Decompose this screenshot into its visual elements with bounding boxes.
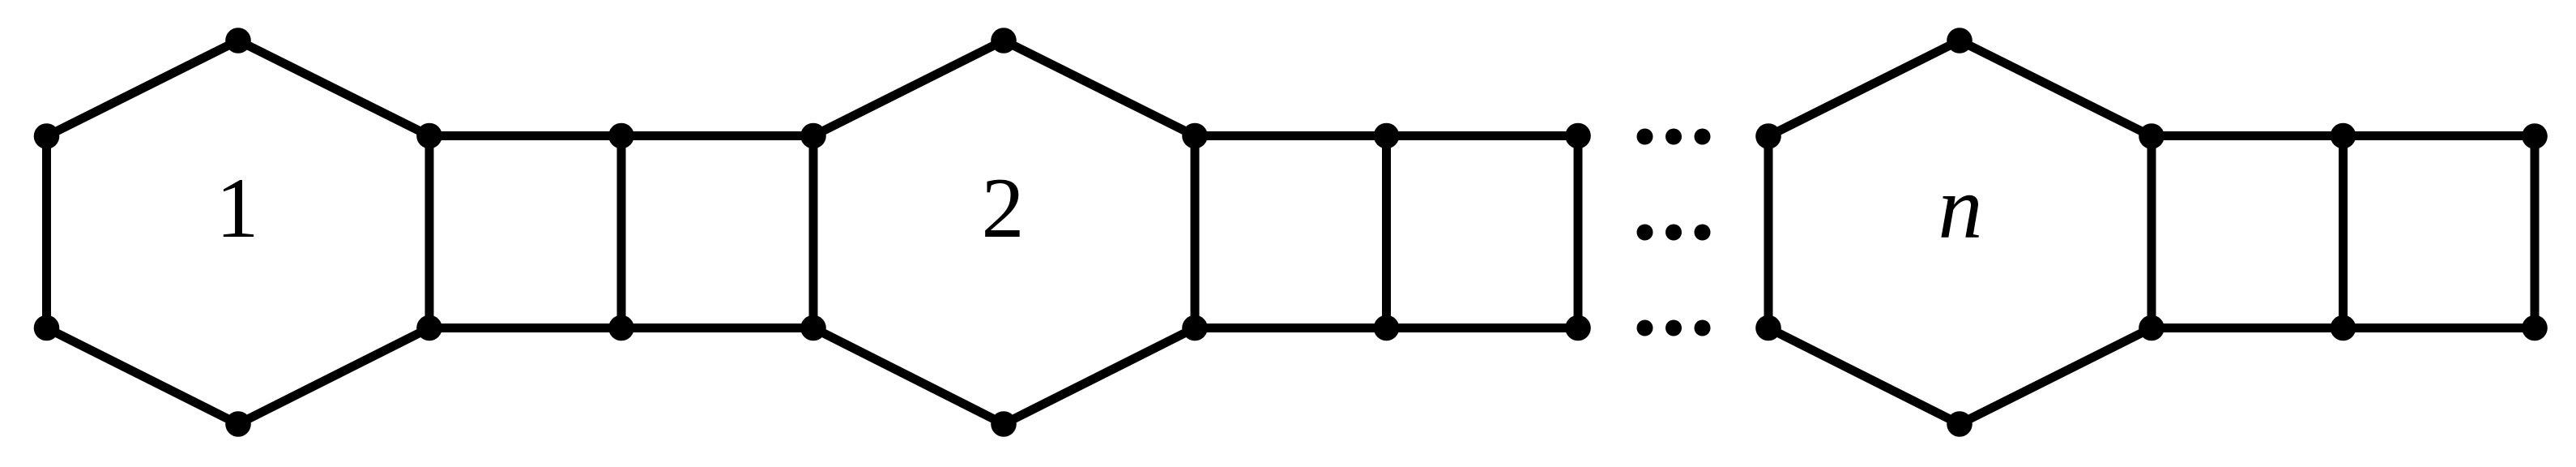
ellipsis dots bottom row <box>1637 320 1653 336</box>
hexagon 2 outline <box>813 41 1195 424</box>
ladder 2 middle rung <box>1382 136 1391 328</box>
vertex hexagon2 bottom <box>991 411 1017 437</box>
vertex ladder3 right-bottom <box>2522 315 2548 341</box>
vertex ladder3 mid-bottom <box>2331 315 2356 341</box>
vertex hexagon-n right-bottom <box>2139 315 2164 341</box>
vertex hexagon2 top <box>991 28 1017 54</box>
svg-text:n: n <box>1938 158 1983 257</box>
vertex ladder2 mid-top <box>1374 123 1400 149</box>
vertex ladder3 right-top <box>2522 123 2548 149</box>
vertex hexagon1 right-bottom <box>416 315 442 341</box>
vertex hexagon-n right-top <box>2139 123 2164 149</box>
ellipsis dots top row <box>1637 129 1653 145</box>
vertex ladder1 right-top <box>800 123 826 149</box>
vertex ladder2 mid-bottom <box>1374 315 1400 341</box>
vertex hexagon-n left-top <box>1755 123 1781 149</box>
ladder 2 square frame <box>1195 136 1578 328</box>
ladder 1 square frame <box>429 136 813 328</box>
vertex hexagon2 right-bottom <box>1182 315 1208 341</box>
vertex hexagon1 bottom <box>225 411 251 437</box>
svg-text:1: 1 <box>216 161 259 255</box>
vertex hexagon1 top <box>225 28 251 54</box>
vertex hexagon-n left-bottom <box>1755 315 1781 341</box>
vertex ladder3 mid-top <box>2331 123 2356 149</box>
vertex hexagon-n top <box>1947 28 1973 54</box>
vertex hexagon2 right-top <box>1182 123 1208 149</box>
hexagon 1 outline <box>47 41 430 424</box>
vertex ladder1 mid-top <box>608 123 634 149</box>
svg-text:2: 2 <box>982 161 1025 255</box>
vertex ladder1 right-bottom <box>800 315 826 341</box>
ladder 3 square frame <box>2152 136 2535 328</box>
vertex ladder2 right-top <box>1565 123 1591 149</box>
vertex hexagon1 left-bottom <box>34 315 60 341</box>
vertex ladder1 mid-bottom <box>608 315 634 341</box>
vertex hexagon1 right-top <box>416 123 442 149</box>
vertex hexagon-n bottom <box>1947 411 1973 437</box>
ladder 3 middle rung <box>2339 136 2348 328</box>
vertex hexagon1 left-top <box>34 123 60 149</box>
vertex ladder2 right-bottom <box>1565 315 1591 341</box>
ellipsis dots middle row <box>1637 225 1653 241</box>
hexagon n outline <box>1768 41 2152 424</box>
ladder 1 middle rung <box>617 136 626 328</box>
